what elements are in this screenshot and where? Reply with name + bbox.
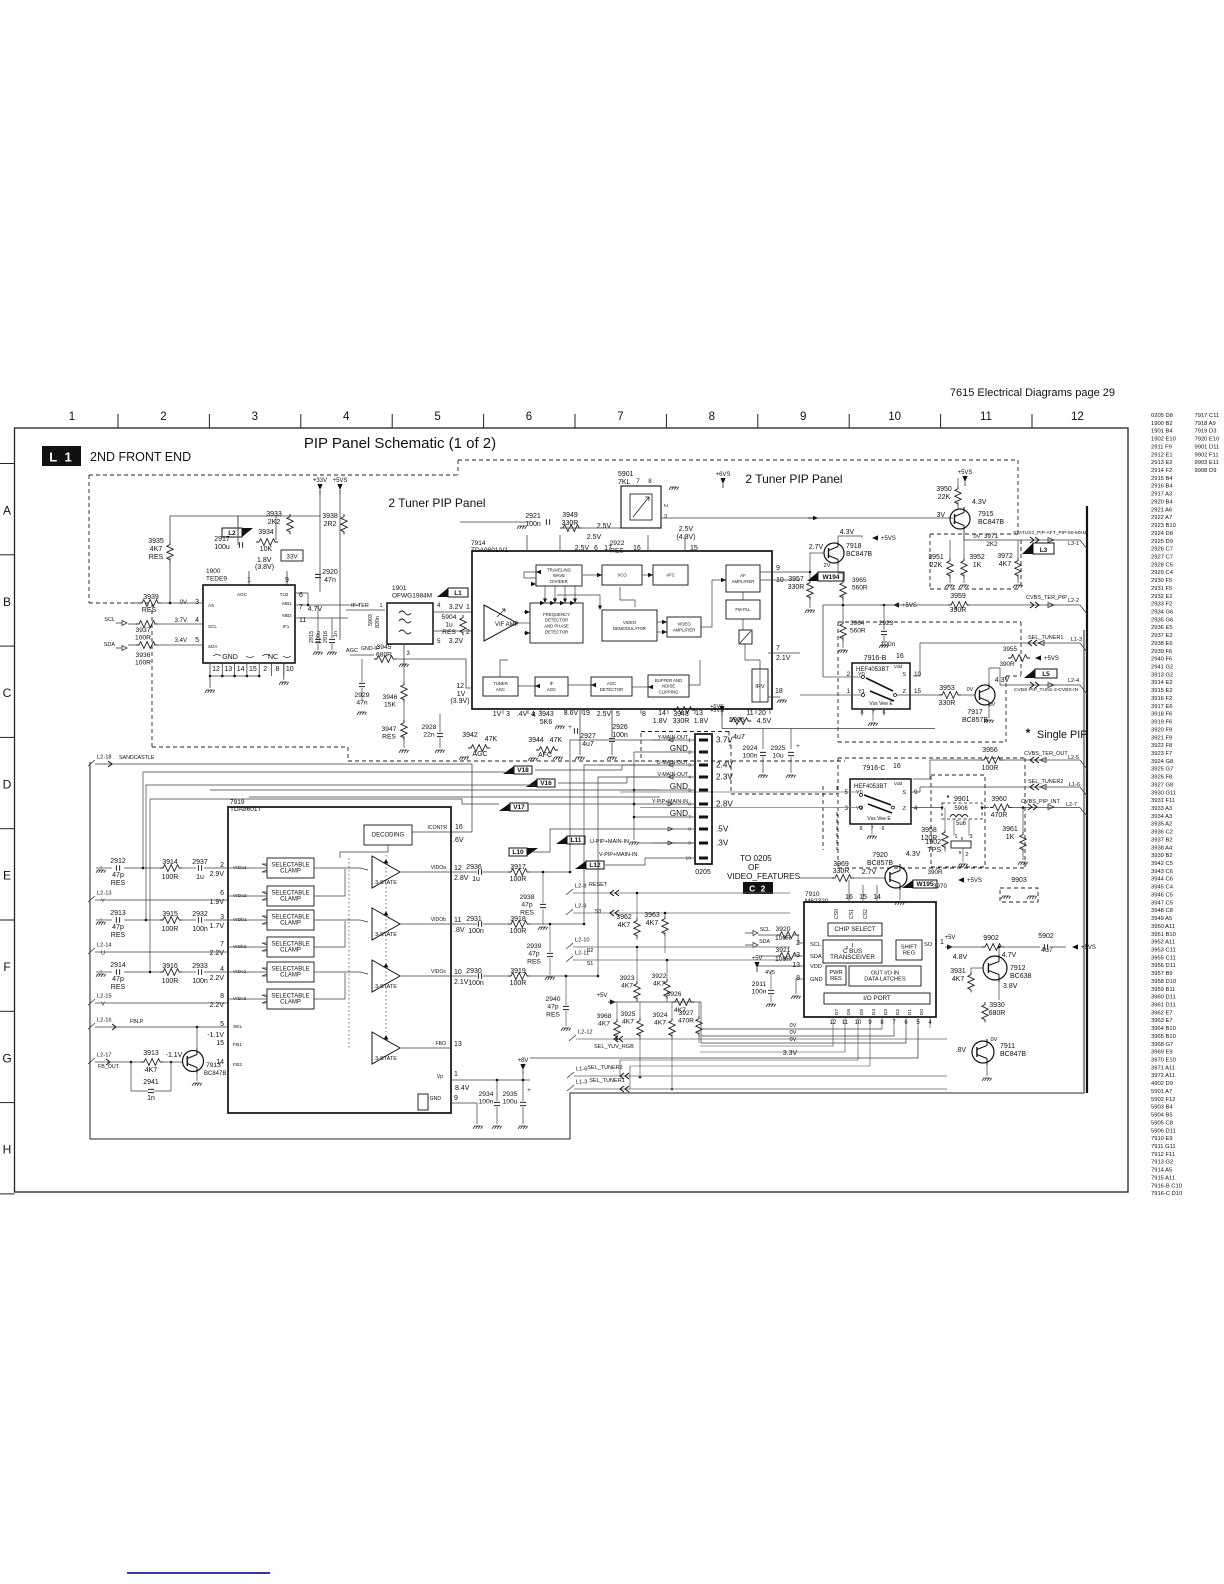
svg-text:3957: 3957	[788, 576, 804, 583]
svg-text:6: 6	[688, 802, 691, 808]
svg-text:7: 7	[776, 645, 780, 652]
svg-text:3924: 3924	[653, 1012, 668, 1019]
svg-text:3919 F6: 3919 F6	[1151, 720, 1172, 726]
svg-text:100R: 100R	[775, 935, 791, 942]
svg-text:D1: D1	[907, 1009, 913, 1016]
svg-text:SDA: SDA	[104, 642, 116, 648]
svg-text:2911: 2911	[752, 981, 767, 988]
svg-text:AGC: AGC	[472, 751, 487, 758]
svg-text:DECODING: DECODING	[372, 833, 405, 839]
svg-text:L1-3: L1-3	[576, 1080, 587, 1086]
svg-text:Single PIP: Single PIP	[1037, 729, 1087, 741]
svg-text:100n: 100n	[752, 989, 767, 996]
svg-text:3935 A2: 3935 A2	[1151, 822, 1172, 828]
svg-text:3944 C6: 3944 C6	[1151, 877, 1173, 883]
svg-text:100u: 100u	[316, 631, 322, 643]
svg-text:7: 7	[220, 941, 224, 948]
svg-text:12: 12	[212, 666, 220, 673]
svg-text:2940: 2940	[546, 996, 561, 1003]
svg-text:Z: Z	[903, 689, 907, 695]
svg-text:3.8V: 3.8V	[1003, 983, 1018, 990]
svg-text:47n: 47n	[356, 700, 367, 707]
svg-text:1K: 1K	[1006, 834, 1015, 841]
svg-text:D3: D3	[883, 1009, 889, 1016]
svg-text:3958 D10: 3958 D10	[1151, 979, 1176, 985]
svg-text:8: 8	[688, 827, 691, 833]
svg-text:4u7: 4u7	[1041, 947, 1053, 954]
svg-text:5906: 5906	[954, 806, 968, 812]
svg-text:S3: S3	[595, 909, 602, 915]
svg-text:TU2: TU2	[280, 592, 289, 597]
svg-text:0205: 0205	[695, 869, 711, 876]
svg-text:9908 D9: 9908 D9	[1195, 468, 1217, 474]
svg-text:3949: 3949	[562, 512, 578, 519]
svg-text:3946: 3946	[383, 694, 398, 701]
svg-text:2920 B4: 2920 B4	[1151, 499, 1173, 505]
svg-text:SANDCASTLE: SANDCASTLE	[119, 755, 155, 761]
svg-text:7913 G2: 7913 G2	[1151, 1160, 1173, 1166]
svg-text:D6: D6	[846, 1009, 852, 1016]
svg-text:3947: 3947	[382, 726, 397, 733]
svg-text:1K: 1K	[973, 562, 982, 569]
svg-text:1: 1	[454, 1071, 458, 1078]
svg-text:IF-TER: IF-TER	[351, 603, 369, 609]
svg-text:2.5V: 2.5V	[597, 711, 612, 718]
svg-text:4K7: 4K7	[654, 1020, 666, 1027]
svg-text:3956: 3956	[982, 747, 998, 754]
svg-text:100R: 100R	[162, 926, 179, 933]
svg-text:3945 C4: 3945 C4	[1151, 885, 1174, 891]
svg-text:47K: 47K	[550, 737, 563, 744]
svg-text:L2-7: L2-7	[1066, 802, 1077, 808]
svg-text:3963 E7: 3963 E7	[1151, 1018, 1173, 1024]
svg-text:7914 A5: 7914 A5	[1151, 1168, 1172, 1174]
svg-text:100n: 100n	[192, 978, 208, 985]
svg-text:RES: RES	[382, 734, 396, 741]
svg-text:3931: 3931	[950, 968, 966, 975]
svg-text:SEL_TUNER2: SEL_TUNER2	[587, 1065, 622, 1071]
svg-text:2915 B4: 2915 B4	[1151, 476, 1173, 482]
svg-text:-1.1V: -1.1V	[207, 1032, 224, 1039]
svg-text:5: 5	[434, 411, 440, 423]
svg-text:L2-18: L2-18	[97, 755, 112, 761]
svg-text:3934: 3934	[258, 529, 274, 536]
svg-text:AS: AS	[208, 603, 214, 608]
svg-text:3956 D11: 3956 D11	[1151, 963, 1176, 969]
svg-text:4: 4	[914, 805, 918, 812]
svg-text:IF1: IF1	[283, 624, 290, 629]
svg-text:3962 E7: 3962 E7	[1151, 1010, 1173, 1016]
svg-text:3927 G8: 3927 G8	[1151, 782, 1173, 788]
svg-text:2937 E2: 2937 E2	[1151, 633, 1173, 639]
svg-text:L2-4: L2-4	[1068, 678, 1079, 684]
svg-text:5906 D11: 5906 D11	[1151, 1128, 1176, 1134]
svg-text:SO: SO	[924, 942, 933, 948]
svg-text:9: 9	[688, 841, 691, 847]
svg-text:3936: 3936	[136, 652, 151, 659]
svg-text:820n: 820n	[375, 616, 381, 628]
svg-text:L2-17: L2-17	[97, 1053, 112, 1059]
svg-text:3970 E10: 3970 E10	[1151, 1058, 1176, 1064]
svg-text:E: E	[3, 869, 11, 883]
svg-text:VDD: VDD	[810, 964, 822, 970]
svg-text:BUFFER AND: BUFFER AND	[655, 678, 682, 683]
svg-text:2917 A3: 2917 A3	[1151, 492, 1172, 498]
svg-text:3.6V: 3.6V	[564, 710, 579, 717]
svg-text:560R: 560R	[850, 628, 866, 635]
svg-text:4K7: 4K7	[653, 981, 665, 988]
svg-text:3921 F9: 3921 F9	[1151, 735, 1172, 741]
svg-text:2.7V: 2.7V	[862, 869, 877, 876]
svg-text:5903: 5903	[368, 614, 374, 626]
svg-text:G: G	[2, 1051, 11, 1065]
svg-text:2936: 2936	[466, 864, 482, 871]
svg-text:4.8V: 4.8V	[953, 954, 968, 961]
svg-text:11: 11	[454, 917, 461, 924]
svg-text:8: 8	[880, 1020, 884, 1026]
svg-text:100R: 100R	[775, 956, 791, 963]
svg-text:47p: 47p	[112, 976, 124, 983]
svg-text:L3: L3	[1040, 547, 1048, 554]
svg-text:3962: 3962	[616, 914, 632, 921]
svg-text:100n: 100n	[479, 1099, 494, 1106]
svg-text:+5V: +5V	[752, 956, 763, 962]
svg-text:7915 A11: 7915 A11	[1151, 1175, 1175, 1181]
svg-text:3.3V: 3.3V	[783, 1050, 798, 1057]
svg-text:H: H	[3, 1143, 12, 1157]
svg-text:2935: 2935	[503, 1091, 518, 1098]
svg-text:.4V: .4V	[517, 711, 528, 718]
svg-text:.8V: .8V	[454, 927, 465, 934]
svg-text:2924 D8: 2924 D8	[1151, 531, 1173, 537]
svg-text:4.7V: 4.7V	[1002, 952, 1017, 959]
svg-text:BC847B: BC847B	[846, 551, 872, 558]
svg-text:CLAMP: CLAMP	[280, 973, 301, 979]
svg-text:TUNER: TUNER	[493, 681, 508, 686]
svg-text:12: 12	[456, 683, 464, 690]
svg-text:2933 F2: 2933 F2	[1151, 602, 1172, 608]
svg-text:1: 1	[69, 411, 75, 423]
svg-text:13: 13	[224, 666, 232, 673]
svg-text:L10: L10	[512, 849, 524, 856]
svg-text:4K7: 4K7	[999, 561, 1012, 568]
svg-text:IF: IF	[550, 681, 554, 686]
svg-text:16: 16	[455, 824, 463, 831]
svg-text:CLIPPING: CLIPPING	[658, 689, 679, 694]
svg-text:47p: 47p	[112, 924, 124, 931]
svg-text:3926 F8: 3926 F8	[1151, 775, 1172, 781]
svg-text:V17: V17	[513, 804, 525, 811]
svg-text:RES: RES	[830, 976, 842, 982]
svg-text:3: 3	[252, 411, 258, 423]
svg-text:2: 2	[965, 852, 968, 858]
svg-text:3958: 3958	[921, 827, 937, 834]
svg-text:12: 12	[1071, 411, 1084, 423]
svg-text:D0: D0	[919, 1009, 925, 1016]
svg-text:F: F	[3, 960, 10, 974]
svg-text:3: 3	[664, 514, 667, 520]
svg-text:2.5V: 2.5V	[597, 523, 612, 530]
svg-text:9901: 9901	[954, 796, 970, 803]
svg-text:1900: 1900	[206, 568, 221, 575]
svg-text:1: 1	[688, 738, 691, 744]
svg-text:100u: 100u	[214, 544, 230, 551]
svg-text:19: 19	[582, 710, 590, 717]
svg-text:7: 7	[636, 478, 640, 485]
svg-text:FM-PLL: FM-PLL	[735, 607, 751, 612]
svg-text:3961: 3961	[1002, 826, 1018, 833]
svg-text:9902: 9902	[983, 935, 999, 942]
svg-text:8: 8	[709, 411, 715, 423]
svg-text:3930 G11: 3930 G11	[1151, 790, 1176, 796]
svg-text:2: 2	[662, 504, 668, 507]
svg-text:AMPLIFIER: AMPLIFIER	[732, 579, 755, 584]
svg-text:4K7: 4K7	[598, 1021, 610, 1028]
svg-text:2920: 2920	[322, 569, 338, 576]
svg-text:100n: 100n	[743, 753, 758, 760]
svg-text:*: *	[1026, 726, 1031, 740]
svg-text:D4: D4	[871, 1009, 877, 1016]
svg-text:AGC: AGC	[237, 592, 248, 597]
svg-text:0205 D8: 0205 D8	[1151, 413, 1173, 419]
svg-text:3-STATE: 3-STATE	[375, 1056, 397, 1062]
svg-text:4u7: 4u7	[733, 734, 745, 741]
svg-text:100R: 100R	[135, 660, 151, 667]
svg-text:2.2V: 2.2V	[210, 975, 225, 982]
svg-text:Z: Z	[903, 806, 907, 812]
svg-text:4: 4	[688, 775, 691, 781]
svg-text:1: 1	[247, 577, 251, 584]
svg-text:7917 C11: 7917 C11	[1195, 413, 1220, 419]
svg-text:14: 14	[237, 666, 245, 673]
svg-text:C 2: C 2	[749, 884, 767, 894]
svg-text:4K7: 4K7	[150, 546, 163, 553]
svg-text:4K7: 4K7	[646, 920, 659, 927]
svg-text:2928 C5: 2928 C5	[1151, 562, 1173, 568]
svg-text:3933: 3933	[266, 511, 282, 518]
svg-text:TO 0205: TO 0205	[740, 854, 772, 863]
svg-text:330R: 330R	[788, 584, 805, 591]
svg-text:S: S	[902, 672, 906, 678]
svg-text:RES: RES	[149, 554, 164, 561]
svg-text:L1-3: L1-3	[1071, 637, 1082, 643]
svg-text:2932 E2: 2932 E2	[1151, 594, 1173, 600]
svg-text:L2-10: L2-10	[575, 938, 590, 944]
svg-text:3920 F9: 3920 F9	[1151, 727, 1172, 733]
svg-text:10K: 10K	[260, 546, 273, 553]
svg-text:L1-6: L1-6	[1069, 782, 1080, 788]
svg-text:7KL: 7KL	[618, 479, 631, 486]
svg-text:9: 9	[776, 565, 780, 572]
svg-text:15K: 15K	[384, 702, 396, 709]
svg-text:MB1: MB1	[282, 601, 292, 606]
svg-text:3960: 3960	[991, 796, 1007, 803]
svg-text:16: 16	[896, 653, 904, 660]
svg-text:VCO: VCO	[617, 573, 627, 578]
svg-text:7914: 7914	[471, 540, 486, 547]
svg-text:2921: 2921	[525, 513, 541, 520]
svg-text:6: 6	[904, 1020, 908, 1026]
svg-text:+: +	[568, 725, 572, 731]
svg-text:VIDEO: VIDEO	[677, 622, 691, 627]
svg-text:0V: 0V	[790, 1037, 797, 1043]
svg-text:2917: 2917	[214, 536, 230, 543]
svg-text:4K7: 4K7	[618, 922, 631, 929]
svg-text:3: 3	[688, 763, 691, 769]
svg-text:3969 E9: 3969 E9	[1151, 1050, 1173, 1056]
svg-text:7911: 7911	[1000, 1043, 1015, 1050]
svg-text:Vp: Vp	[437, 1074, 443, 1080]
svg-text:REG: REG	[903, 951, 915, 957]
svg-text:2932: 2932	[192, 911, 208, 918]
svg-text:2925 D9: 2925 D9	[1151, 539, 1173, 545]
svg-text:FBLP: FBLP	[130, 1019, 144, 1025]
svg-text:8: 8	[642, 711, 646, 718]
svg-text:8.4V: 8.4V	[455, 1085, 470, 1092]
svg-text:BC638: BC638	[1010, 973, 1032, 980]
svg-text:7913: 7913	[206, 1062, 221, 1069]
svg-text:6: 6	[881, 826, 884, 832]
svg-text:3931 F11: 3931 F11	[1151, 798, 1175, 804]
svg-text:11: 11	[980, 411, 992, 423]
svg-text:Vss Vee E: Vss Vee E	[867, 816, 891, 822]
svg-text:5904 B5: 5904 B5	[1151, 1113, 1173, 1119]
svg-text:3964: 3964	[850, 620, 865, 627]
svg-text:0V: 0V	[967, 687, 974, 693]
svg-text:2937: 2937	[192, 859, 208, 866]
svg-text:L2-15: L2-15	[97, 994, 112, 1000]
svg-text:2934: 2934	[479, 1091, 494, 1098]
svg-text:L2-13: L2-13	[97, 891, 112, 897]
svg-text:9: 9	[454, 1095, 458, 1102]
svg-text:+5VS: +5VS	[881, 536, 896, 542]
svg-text:2927 C7: 2927 C7	[1151, 554, 1173, 560]
svg-text:2K2: 2K2	[986, 541, 998, 548]
svg-text:3952: 3952	[969, 554, 985, 561]
svg-text:9903: 9903	[1011, 877, 1027, 884]
svg-text:RES: RES	[111, 984, 126, 991]
svg-text:10: 10	[888, 411, 901, 423]
svg-text:10: 10	[454, 969, 462, 976]
svg-text:3950 A11: 3950 A11	[1151, 924, 1175, 930]
svg-text:CLAMP: CLAMP	[280, 897, 301, 903]
svg-text:2.9V: 2.9V	[210, 871, 225, 878]
svg-text:3961 D11: 3961 D11	[1151, 1003, 1176, 1009]
svg-text:BC847B: BC847B	[1000, 1051, 1026, 1058]
svg-text:DETECTOR: DETECTOR	[545, 629, 569, 634]
svg-text:4.3V: 4.3V	[995, 677, 1010, 684]
svg-text:5905 C8: 5905 C8	[1151, 1120, 1173, 1126]
svg-text:1: 1	[466, 604, 470, 611]
svg-text:9: 9	[959, 850, 962, 856]
svg-text:7916-C D10: 7916-C D10	[1151, 1191, 1182, 1197]
svg-text:2927: 2927	[580, 733, 596, 740]
svg-text:BC857B: BC857B	[867, 860, 893, 867]
svg-text:1.8V: 1.8V	[257, 557, 272, 564]
svg-text:L1: L1	[454, 590, 462, 597]
svg-text:AND PHASE: AND PHASE	[544, 624, 569, 629]
svg-text:STATUS1_PIP-AFT_PIP-50-60HZ: STATUS1_PIP-AFT_PIP-50-60HZ	[1013, 530, 1087, 536]
svg-text:6: 6	[526, 411, 532, 423]
svg-text:3918 F6: 3918 F6	[1151, 712, 1172, 718]
svg-text:CS2: CS2	[863, 909, 869, 919]
svg-text:15: 15	[249, 666, 257, 673]
svg-text:*: *	[947, 795, 950, 802]
svg-text:SEL_TUNER1: SEL_TUNER1	[1028, 635, 1063, 641]
svg-text:2V: 2V	[824, 563, 831, 569]
svg-text:CVBS_PIP_INT: CVBS_PIP_INT	[1021, 799, 1060, 805]
svg-text:2925: 2925	[771, 745, 786, 752]
svg-text:2931 F5: 2931 F5	[1151, 586, 1172, 592]
svg-text:2 Tuner PIP Panel: 2 Tuner PIP Panel	[388, 496, 485, 510]
svg-text:0V: 0V	[790, 1023, 797, 1029]
svg-text:0V: 0V	[790, 1030, 797, 1036]
svg-text:CHIP SELECT: CHIP SELECT	[834, 926, 875, 933]
svg-text:15: 15	[914, 688, 922, 695]
svg-text:680R: 680R	[989, 1010, 1006, 1017]
svg-text:13: 13	[792, 962, 800, 969]
svg-text:L1-6: L1-6	[576, 1067, 587, 1073]
svg-text:4: 4	[343, 411, 350, 423]
svg-text:3.2V: 3.2V	[449, 638, 464, 645]
svg-text:3968: 3968	[597, 1013, 612, 1020]
svg-text:3: 3	[844, 805, 848, 812]
svg-text:Vss Vee E: Vss Vee E	[869, 701, 893, 707]
svg-text:15: 15	[690, 545, 698, 552]
svg-text:10: 10	[686, 856, 692, 862]
svg-text:3942 C5: 3942 C5	[1151, 861, 1173, 867]
svg-text:GND: GND	[810, 977, 823, 983]
svg-text:100n: 100n	[468, 928, 484, 935]
svg-text:5: 5	[195, 637, 199, 644]
svg-text:1902 E10: 1902 E10	[1151, 437, 1176, 443]
svg-text:2940 F6: 2940 F6	[1151, 657, 1172, 663]
svg-text:SDA: SDA	[759, 939, 770, 945]
svg-text:2941: 2941	[143, 1079, 159, 1086]
svg-text:1: 1	[940, 939, 944, 946]
svg-text:FB2: FB2	[233, 1062, 242, 1068]
svg-text:3: 3	[506, 711, 510, 718]
svg-text:4.5V: 4.5V	[757, 718, 772, 725]
svg-text:TPS: TPS	[927, 847, 941, 854]
svg-text:FB1: FB1	[233, 1042, 242, 1048]
svg-text:9901 D11: 9901 D11	[1195, 444, 1220, 450]
svg-text:+5VS: +5VS	[958, 470, 973, 476]
svg-text:CLAMP: CLAMP	[280, 948, 301, 954]
svg-text:2939: 2939	[527, 943, 542, 950]
svg-text:3959 B11: 3959 B11	[1151, 987, 1175, 993]
svg-text:22K: 22K	[930, 562, 943, 569]
svg-text:L2-2: L2-2	[1068, 598, 1079, 604]
svg-text:16: 16	[633, 545, 641, 552]
svg-text:SEL: SEL	[233, 1024, 243, 1030]
svg-text:C: C	[3, 686, 12, 700]
svg-text:2928: 2928	[422, 724, 437, 731]
svg-text:+5VS: +5VS	[710, 704, 724, 710]
svg-text:2922: 2922	[610, 540, 625, 547]
svg-text:AF: AF	[740, 573, 746, 578]
svg-text:390R: 390R	[950, 607, 967, 614]
svg-text:4: 4	[928, 1020, 932, 1026]
svg-text:2 Tuner PIP Panel: 2 Tuner PIP Panel	[745, 472, 842, 486]
svg-text:15: 15	[216, 1040, 224, 1047]
svg-text:10: 10	[914, 671, 922, 678]
svg-text:4K7: 4K7	[621, 983, 633, 990]
svg-text:5K6: 5K6	[540, 719, 553, 726]
svg-text:L2-11: L2-11	[575, 951, 589, 957]
svg-text:8: 8	[276, 666, 280, 673]
svg-text:RES: RES	[546, 1011, 560, 1018]
